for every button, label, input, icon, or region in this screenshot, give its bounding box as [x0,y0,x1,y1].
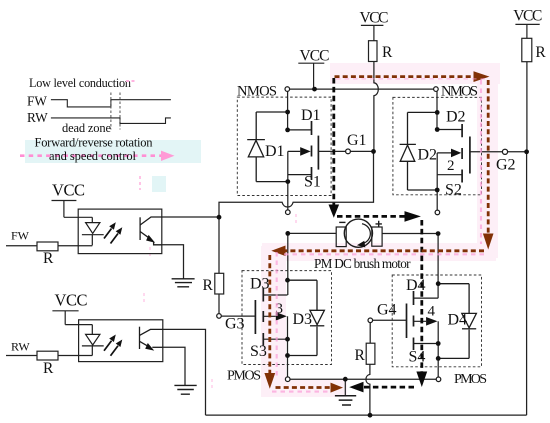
NMOS1 dashed box [237,97,331,195]
svg-text:VCC: VCC [55,291,88,310]
svg-text:2: 2 [447,158,455,174]
diode D4 (body diode) [438,284,476,359]
G2 gate lead wire [470,151,527,153]
wire from right R down to G2 node [526,62,528,152]
svg-text:R: R [43,360,54,377]
top supply rail between NMOS terminals [290,88,434,90]
brown dashed route left vertical [268,255,271,373]
pink dashed legend line [20,154,161,157]
RW opto light arrows [104,335,122,356]
PMOS3 drain rail from motor node [287,233,289,295]
NMOS2 dashed box [393,97,482,194]
svg-text:NMOS: NMOS [237,84,277,100]
brown dashed route right vertical [487,80,490,234]
svg-text:RW: RW [11,340,30,354]
RW input wire [6,355,37,357]
brown dashed route middle horizontal [286,249,485,252]
wire from G1 node down and left to FW junction (hop over S1 rail) [219,151,374,273]
faint pink artifact near S1 terminal [295,214,297,223]
brown route arrowhead down [483,234,494,250]
NMOS1 source rail down to terminal [287,151,289,210]
FW waveform [51,100,171,107]
PMOS4 source rail down to terminal [437,321,439,377]
G4 pull-up branch with hop over source line [366,364,370,415]
svg-text:VCC: VCC [52,181,85,200]
svg-text:D2: D2 [446,109,466,126]
black route arrowhead down at bottom [416,372,427,388]
pink route glow right vertical [477,70,498,258]
PMOS4 drain rail from motor node [437,234,439,299]
svg-text:R: R [355,347,366,364]
dead zone boundary dashed line 1 [110,93,112,130]
pink dashed overlay middle horizontal [284,253,486,255]
svg-text:RW: RW [27,110,48,125]
faint pink artifact left of FW box [149,247,151,259]
motor wire right [382,233,438,235]
black route arrowhead down [329,205,340,218]
svg-text:and speed control: and speed control [49,149,137,163]
RW collector wire to bottom rail [163,329,206,415]
open terminal circles [217,87,508,382]
faint pink artifact near RW ground [211,379,213,389]
VCC symbol top-center [360,10,389,41]
pink dashed overlay right vertical [480,80,482,244]
wire from R down to G3 terminal [218,294,220,314]
PMOS source line [290,378,436,380]
pink artifact dashes right of FW VCC [139,176,141,190]
PMOS4 dashed box [392,275,481,367]
black dashed reverse route: vertical from supply corner [332,78,335,205]
ground (FW opto) [172,279,195,287]
NMOS1 drain rail [287,92,289,130]
ground (RW opto) [174,385,196,394]
dead zone boundary dashed line 2 [119,93,121,130]
svg-text:S2: S2 [445,182,462,199]
resistor R (G3 pull-up) [215,273,224,294]
pink artifact dashes near legend [126,80,135,82]
svg-text:D4: D4 [448,312,468,329]
svg-text:D1: D1 [265,143,285,160]
main ground stem [344,379,346,395]
svg-text:VCC: VCC [360,10,389,27]
black route arrowhead right [405,211,421,222]
G1 gate lead wire [318,150,373,152]
svg-text:PM DC brush motor: PM DC brush motor [314,256,411,271]
FW opto light arrows [104,222,122,243]
svg-text:Forward/reverse rotation: Forward/reverse rotation [35,136,154,150]
transistor Q2 (NMOS2 MOSFET) [437,124,470,183]
pink dashed overlay left vertical [276,252,278,376]
pink speed-control route glow top [330,63,500,84]
brown dashed forward route: top horizontal [335,75,474,78]
black dashed route vertical through PMOS4 [420,220,423,372]
svg-text:S3: S3 [250,343,267,360]
bottom rail from RW opto to right rail [206,414,527,416]
diode D2 (body diode) [400,112,438,190]
svg-text:R: R [535,44,546,61]
svg-text:G2: G2 [496,157,516,174]
RW input resistor R [37,351,58,360]
PMOS3 source rail down to terminal [287,316,289,377]
FW emitter wire to ground [162,245,184,279]
faint pink artifact near RW VCC [143,293,145,303]
wire from RW resistor to LED [58,355,92,357]
ground (main) [335,396,356,405]
pink route glow left vertical [261,246,286,396]
FW input resistor R [37,242,58,251]
resistor R top-right (G2 pull-up) [522,38,532,61]
G4 gate lead wire [373,319,407,321]
svg-text:FW: FW [11,229,30,243]
pink speed-control dashed overlay top (mostly hidden under brown) [336,78,489,80]
svg-text:VCC: VCC [513,7,542,24]
brown route arrowhead left [271,246,285,257]
black dashed route bottom horizontal to ground [364,386,415,389]
RW waveform [51,118,171,124]
wire from R down with hop over top rail [374,62,378,152]
diode D3 (body diode) [288,280,325,355]
diode D1 (body diode) [247,112,288,182]
svg-text:NMOS: NMOS [441,84,478,100]
black dashed route horizontal above motor [337,215,405,218]
cyan legend artifact band [25,140,201,163]
VCC symbol above NMOS rail (left) [298,48,329,90]
pink route glow middle horizontal [262,243,496,261]
resistor R (G4 pull-up) [366,343,375,364]
svg-text:PMOS: PMOS [454,372,487,387]
svg-text:D2: D2 [418,147,438,164]
VCC symbol top-right [513,7,542,38]
brown dashed route bottom horizontal to ground [276,386,331,389]
pink legend arrowhead [161,151,175,161]
FW optocoupler U1 box [78,209,162,254]
cyan artifact near FW VCC [152,176,166,192]
svg-text:D3: D3 [250,276,270,293]
transistor Q1 (NMOS1 MOSFET) [288,121,319,180]
svg-text:FW: FW [27,94,47,109]
svg-text:G1: G1 [347,132,367,149]
RW emitter wire to ground [163,347,185,385]
LED inside RW optocoupler [82,325,104,356]
svg-text:D1: D1 [301,107,321,124]
brown route arrowhead right [474,71,490,82]
svg-text:VCC: VCC [300,48,330,65]
RW optocoupler U2 box [79,320,163,362]
FW input wire [6,245,37,247]
brown route arrowhead right at ground [331,383,344,393]
black route arrowhead left at ground [349,382,363,393]
LED inside FW optocoupler [82,217,104,245]
transistor Q3 (PMOS3 MOSFET) [255,288,287,346]
brown route arrowhead down at bottom [264,373,275,389]
motor wire left [288,232,336,234]
NMOS2 drain rail [436,91,438,129]
right rail (G2 net) [526,152,528,415]
pink dashed overlay bottom [272,391,330,393]
svg-text:Low level conduction: Low level conduction [29,76,131,90]
svg-text:PMOS: PMOS [227,369,261,384]
svg-text:R: R [43,250,54,267]
resistor R top-center (G1 pull-up) [369,41,378,62]
svg-text:R: R [382,44,393,61]
svg-text:S1: S1 [304,174,321,191]
transistor Q4 (PMOS4 MOSFET) [407,291,439,350]
svg-text:R: R [203,277,214,294]
FW opto phototransistor [140,217,162,245]
RW opto phototransistor [140,327,163,351]
svg-text:D3: D3 [293,311,313,328]
PM DC brush motor [336,219,382,247]
svg-text:dead zone: dead zone [62,121,111,135]
wire from FW resistor to LED [58,245,92,247]
wire from R up to G4 terminal [369,323,371,344]
NMOS2 source rail down to terminal [436,153,438,210]
PMOS3 dashed box [242,271,332,365]
G3 gate lead wire [221,315,255,317]
svg-text:G4: G4 [377,302,397,319]
svg-text:4: 4 [428,304,436,320]
pink route glow bottom [261,379,347,397]
VCC symbol for FW optocoupler [52,181,93,218]
svg-text:G3: G3 [225,316,245,333]
VCC symbol for RW optocoupler [52,291,92,325]
FW collector wire to junction [162,216,219,218]
